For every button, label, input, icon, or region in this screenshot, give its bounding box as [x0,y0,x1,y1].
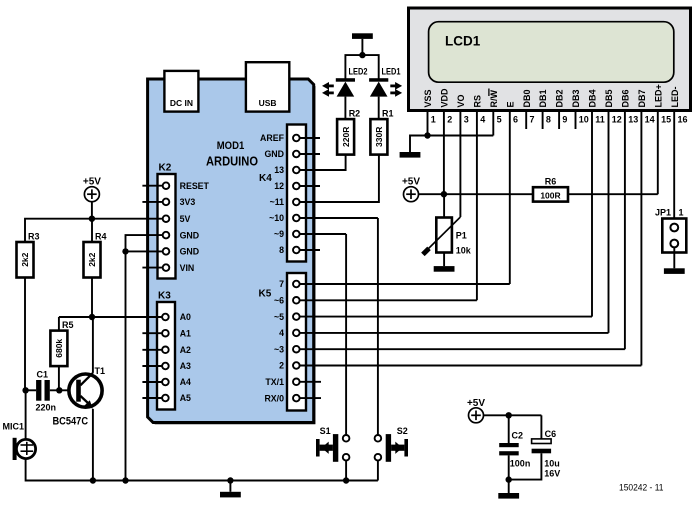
wire R1 to pin ~11 [302,155,379,202]
wire ground stub [508,480,510,493]
svg-text:220R: 220R [341,127,351,147]
wire LCD pin 9 [558,111,560,130]
wire stub VIN [142,267,162,269]
LCD1 pin 15 label [653,84,663,107]
svg-text:K3: K3 [158,291,171,302]
svg-text:8: 8 [279,245,284,255]
resistor R5 680k [50,320,73,366]
svg-text:R5: R5 [62,320,74,330]
wire LCD pin 8 [542,111,544,130]
microphone MIC1 [3,422,36,461]
svg-text:VDD: VDD [440,88,450,108]
svg-text:LED1: LED1 [382,67,401,77]
svg-text:680k: 680k [54,339,64,358]
svg-text:5: 5 [497,115,502,125]
svg-text:4: 4 [480,115,485,125]
wire stub A1 [142,332,162,334]
svg-text:7: 7 [530,115,535,125]
wire bottom ground rail [26,458,378,480]
header K2 [158,163,210,279]
wire +5V to capacitors [483,414,541,416]
wire R6 to LED+ drop [568,193,658,195]
svg-text:MOD1: MOD1 [217,140,245,152]
ground (bottom rail) [220,492,241,498]
svg-text:ARDUINO: ARDUINO [206,154,258,168]
svg-text:DB0: DB0 [522,89,532,107]
wire stub RX/0 [300,397,321,399]
wire C1 right to base [50,389,77,391]
transistor T1 BC547C [53,366,106,428]
svg-text:VSS: VSS [423,89,433,107]
svg-text:100n: 100n [510,459,531,469]
svg-text:R/W: R/W [489,90,499,108]
svg-text:2k2: 2k2 [20,252,30,266]
+5V supply (decoupling) [467,398,485,423]
wire LCD pin 7 [525,111,527,130]
svg-text:DB1: DB1 [538,89,548,107]
wire stub A3 [142,365,162,367]
svg-text:12: 12 [612,115,622,125]
wire LCD pin 13 [624,111,626,350]
wire stub 3V3 [142,201,162,203]
svg-text:~6: ~6 [274,296,284,306]
LCD1 pin 6 label [505,101,515,107]
junction LED cathode node [359,52,365,58]
LCD1 pin 14 label [637,89,647,107]
svg-text:R4: R4 [95,232,107,242]
svg-text:RESET: RESET [180,181,210,191]
junction GND pins [122,248,128,254]
ground (P1) [434,266,455,272]
wire stub GND [300,153,320,155]
LCD1 pin 11 label [588,89,598,107]
wire +5V rail to R3 [25,219,92,242]
wire stub AREF [300,137,320,139]
wire LCD pin 16 [673,111,675,224]
wire pin ~6 to LCD RS [300,299,477,301]
svg-text:330R: 330R [374,127,384,147]
wire A0 row [59,316,162,318]
svg-text:11: 11 [595,115,605,125]
wire LED1 anode to R1 [378,97,380,120]
USB connector [246,62,289,111]
junction R5 / base [56,387,62,393]
ground (JP1) [664,268,685,274]
wire JP1 to ground [673,247,675,268]
connector JP1 [655,208,686,253]
svg-text:LED+: LED+ [653,84,663,107]
wire +5V stub [91,201,93,218]
svg-text:7: 7 [279,279,284,289]
svg-text:K4: K4 [259,173,272,184]
wire R2 to pin 13 [302,155,346,170]
LCD1 pin 8 label [538,89,548,107]
wire LCD pin 6 [509,111,511,285]
svg-text:USB: USB [259,98,277,108]
svg-text:T1: T1 [95,366,106,376]
wire S1 to pin ~9 [345,234,347,435]
wire pin ~11 row [300,201,379,203]
svg-text:BC547C: BC547C [53,416,89,428]
junction GND vertical at rail [122,477,128,483]
junction C1 / R3 / MIC1 [22,387,28,393]
svg-text:S1: S1 [320,426,331,436]
wire C2 bottom lead [508,455,510,479]
svg-text:C6: C6 [545,429,557,439]
wire pin 4 to LCD DB5 [300,332,609,334]
pushbutton S2 [375,426,408,462]
svg-text:6: 6 [513,115,518,125]
wire VSS-R/W ground tie [410,136,493,153]
svg-text:+5V: +5V [467,398,485,409]
svg-text:GND: GND [264,149,284,159]
junction VDD / P1 [441,191,447,197]
wire stub 8 [300,249,320,251]
svg-text:DB4: DB4 [588,89,598,107]
svg-text:A0: A0 [180,312,191,322]
wire pin 2 to LCD DB7 [300,365,642,367]
resistor R3 2k2 [17,232,40,278]
svg-text:2: 2 [279,361,284,371]
wire R5 bottom to base node [58,366,60,390]
svg-text:16: 16 [678,115,688,125]
ground (LCD VSS) [400,152,421,158]
header K5 [259,273,307,411]
wire P1 to ground [443,253,445,267]
+5V supply (P1 area) [402,177,420,202]
svg-text:~10: ~10 [269,213,284,223]
wire 5V pin to +5V rail [92,218,163,220]
svg-text:1: 1 [431,115,436,125]
svg-text:~9: ~9 [274,229,284,239]
svg-text:A4: A4 [180,377,191,387]
svg-text:A5: A5 [180,393,191,403]
DC IN connector [164,71,198,112]
svg-text:3: 3 [464,115,469,125]
svg-text:2: 2 [447,115,452,125]
svg-text:RS: RS [473,95,483,108]
svg-text:LED-: LED- [670,87,680,108]
wire +5V rail to R6 [418,193,533,195]
svg-text:R3: R3 [28,232,40,242]
svg-text:E: E [505,101,515,107]
LCD1 pin 13 label [621,89,631,107]
wire collector [92,317,94,373]
svg-text:A2: A2 [180,345,191,355]
LCD1 pin 5 label [489,89,499,108]
svg-text:DB2: DB2 [555,89,565,107]
svg-text:LED2: LED2 [349,67,368,77]
junction VSS node [424,132,430,138]
svg-text:10u: 10u [544,459,560,469]
svg-text:13: 13 [628,115,638,125]
wire GND pin to bottom rail [126,235,163,480]
svg-text:GND: GND [180,230,200,240]
junction R4 / collector / A0 [89,314,95,320]
svg-text:8: 8 [546,115,551,125]
wire LCD pin 15 [657,111,659,195]
junction C2/C6 ground node [506,476,512,482]
svg-text:P1: P1 [456,231,467,241]
wire R4 top [91,219,93,242]
wire LED cathode bus [345,55,378,78]
resistor R4 2k2 [84,232,107,278]
svg-text:VIN: VIN [180,263,195,273]
wire C2 top lead [508,415,510,443]
svg-text:DB3: DB3 [571,89,581,107]
LCD1 pin 4 label [473,95,483,108]
svg-text:DB7: DB7 [637,89,647,107]
wire S2 to pin ~10 [377,218,379,435]
junction emitter / rail [90,477,96,483]
svg-text:+5V: +5V [402,177,420,188]
svg-text:VO: VO [456,94,466,107]
svg-text:12: 12 [274,181,284,191]
wire C6 top lead [540,415,542,439]
svg-text:2k2: 2k2 [87,252,97,266]
ground (C2/C6) [498,493,519,499]
LCD1 pin 2 label [440,88,450,108]
LCD1 pin 10 label [571,89,581,107]
wire +5V to P1 [443,194,445,217]
svg-text:+5V: +5V [83,177,101,188]
svg-text:~3: ~3 [274,344,284,354]
wire R5 top [58,317,60,331]
svg-text:R6: R6 [545,177,557,187]
wire node to MIC1 [25,390,27,439]
LCD1 pin 3 label [456,94,466,107]
resistor R2 220R [337,109,360,155]
svg-text:DB6: DB6 [621,89,631,107]
ground (LED cathodes) [352,33,373,39]
svg-text:13: 13 [274,165,284,175]
svg-text:~5: ~5 [274,312,284,322]
wire LED2 anode to R2 [344,97,346,120]
svg-text:RX/0: RX/0 [264,393,284,403]
wire GND pin 2 [126,250,163,252]
svg-text:1: 1 [679,208,684,218]
svg-text:15: 15 [661,115,671,125]
wire LCD pin 3 [459,111,461,218]
svg-text:AREF: AREF [260,133,285,143]
svg-text:JP1: JP1 [655,208,671,218]
svg-text:10: 10 [579,115,589,125]
svg-text:5V: 5V [180,214,191,224]
resistor R1 330R [370,109,393,155]
svg-text:TX/1: TX/1 [265,377,284,387]
svg-text:220n: 220n [36,403,57,413]
junction ground symbol [227,477,233,483]
wire stub TX/1 [300,381,321,383]
pushbutton S1 [316,426,349,462]
LCD1 pin 16 label [670,87,680,108]
LED LED1 [369,67,402,97]
svg-text:R1: R1 [382,109,394,119]
wire C6 bottom to C2 [509,453,542,479]
wire LCD pin 1 [427,111,429,136]
LCD1 pin 1 label [423,89,433,107]
capacitor C2 100n [499,431,530,469]
wire stub 12 [300,185,320,187]
wire stub A5 [142,397,162,399]
svg-text:GND: GND [180,247,200,257]
wire pin 13 row [300,169,346,171]
svg-text:MIC1: MIC1 [3,422,25,432]
Arduino module MOD1 body [148,79,316,424]
svg-text:R2: R2 [349,109,361,119]
svg-text:9: 9 [562,115,567,125]
wire LCD pin 4 [476,111,478,301]
wire stub A4 [142,381,162,383]
wire LCD pin 10 [575,111,577,130]
capacitor C6 10u 16V electrolytic [532,429,561,479]
svg-text:4: 4 [279,328,284,338]
junction S1 / rail [343,477,349,483]
wire R3 bottom to C1 node [24,278,26,391]
LCD1 module body [409,8,691,111]
header K4 [259,125,306,262]
junction C2 top [506,412,512,418]
wire stub RESET [142,185,162,187]
wire S2 to rail [377,461,379,481]
svg-text:C1: C1 [37,370,49,380]
header K3 [157,291,191,410]
svg-text:100R: 100R [540,190,560,200]
capacitor C1 220n [36,370,57,413]
svg-text:14: 14 [645,115,655,125]
junction +5V rail [89,216,95,222]
wire R4 bottom to node [91,278,93,318]
wire pin 7 to LCD E [300,283,510,285]
+5V supply (left) [83,177,101,202]
LED LED2 [322,67,368,97]
wire ground stub [229,481,231,492]
svg-text:LCD1: LCD1 [445,34,481,49]
svg-text:A3: A3 [180,361,191,371]
wire pin ~10 row to S2 [300,217,378,219]
wire stub A2 [142,349,162,351]
svg-text:DB5: DB5 [604,89,614,107]
svg-text:DC IN: DC IN [170,98,193,108]
svg-text:~11: ~11 [270,197,285,207]
wire S1 to rail [345,461,347,481]
wire LCD pin 5 [492,111,494,136]
svg-text:10k: 10k [456,246,472,256]
svg-text:3V3: 3V3 [180,197,196,207]
wire pin ~9 row to S1 [300,233,347,235]
potentiometer P1 10k [423,217,472,256]
LCD1 pin 9 label [555,89,565,107]
wire to C1 left [26,389,36,391]
svg-text:K2: K2 [159,163,172,174]
wire pin ~5 to LCD DB4 [300,316,592,318]
wire ground stub [361,39,363,55]
resistor R6 100R [533,177,568,202]
wire LCD pin 2 [443,111,445,195]
LCD1 pin 12 label [604,89,614,107]
svg-text:K5: K5 [259,289,272,300]
wire LCD pin 12 [608,111,610,333]
wire emitter to rail [92,409,94,481]
LCD1 pin 7 label [522,89,532,107]
wire LCD pin 11 [591,111,593,317]
wire LCD pin 14 [640,111,642,366]
svg-text:150242 - 11: 150242 - 11 [619,483,664,493]
svg-text:S2: S2 [397,426,408,436]
svg-text:16V: 16V [544,469,560,479]
svg-text:A1: A1 [180,328,191,338]
wire pin ~3 to LCD DB6 [300,348,625,350]
svg-text:C2: C2 [512,431,524,441]
